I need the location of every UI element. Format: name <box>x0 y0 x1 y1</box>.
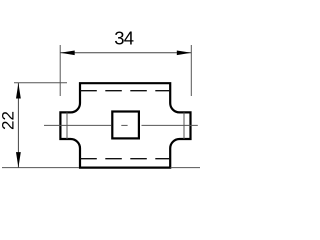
extension line 22 bottom <box>2 167 79 169</box>
extension line 34 left <box>59 45 61 96</box>
dimension line 34 <box>60 52 191 54</box>
square hole <box>112 112 139 139</box>
dimension line 22 <box>17 83 19 168</box>
hidden line top <box>80 90 170 92</box>
arrow 34 right <box>177 51 192 56</box>
part outline <box>60 83 190 167</box>
svg-text:22: 22 <box>0 111 17 130</box>
extension line 34 right <box>190 45 192 96</box>
tangent line right tab <box>183 112 185 139</box>
tangent line left tab <box>66 112 68 139</box>
arrow 22 top <box>16 83 21 99</box>
centerline <box>44 124 111 126</box>
arrow 34 left <box>60 51 74 56</box>
baseline extension right <box>171 167 201 169</box>
arrow 22 bottom <box>16 152 21 168</box>
extension line 22 top <box>14 82 67 84</box>
svg-text:34: 34 <box>114 28 133 49</box>
hidden line bottom <box>80 158 170 160</box>
